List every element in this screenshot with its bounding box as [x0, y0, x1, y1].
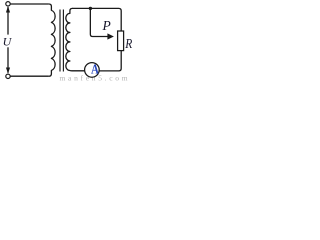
terminal T2 bottom-left	[6, 74, 10, 78]
voltage arrow U upper arrowhead (up)	[6, 6, 10, 12]
wire secondary top to resistor	[72, 8, 121, 31]
voltage arrow U upper segment	[7, 7, 9, 35]
svg-text:A: A	[91, 61, 99, 77]
voltage arrow U lower segment	[7, 47, 9, 73]
resistor R box	[118, 31, 124, 51]
transformer core line 1	[59, 10, 61, 72]
wire resistor bottom to ammeter	[99, 51, 121, 71]
transformer secondary winding L2	[66, 8, 85, 70]
svg-text:U: U	[3, 35, 13, 49]
ammeter A1 circle	[85, 63, 100, 78]
wire bottom-left horizontal	[10, 75, 49, 77]
voltage arrow U lower arrowhead (down)	[6, 68, 10, 74]
power arrow P arrowhead (right)	[107, 33, 114, 39]
transformer primary winding L1	[49, 4, 55, 76]
svg-text:P: P	[102, 18, 111, 33]
terminal T1 top-left	[6, 2, 10, 6]
wire top-left horizontal	[10, 3, 49, 5]
svg-text:R: R	[124, 36, 132, 51]
transformer core line 2	[62, 10, 64, 72]
junction node	[89, 7, 92, 10]
power arrow P line	[90, 10, 108, 37]
